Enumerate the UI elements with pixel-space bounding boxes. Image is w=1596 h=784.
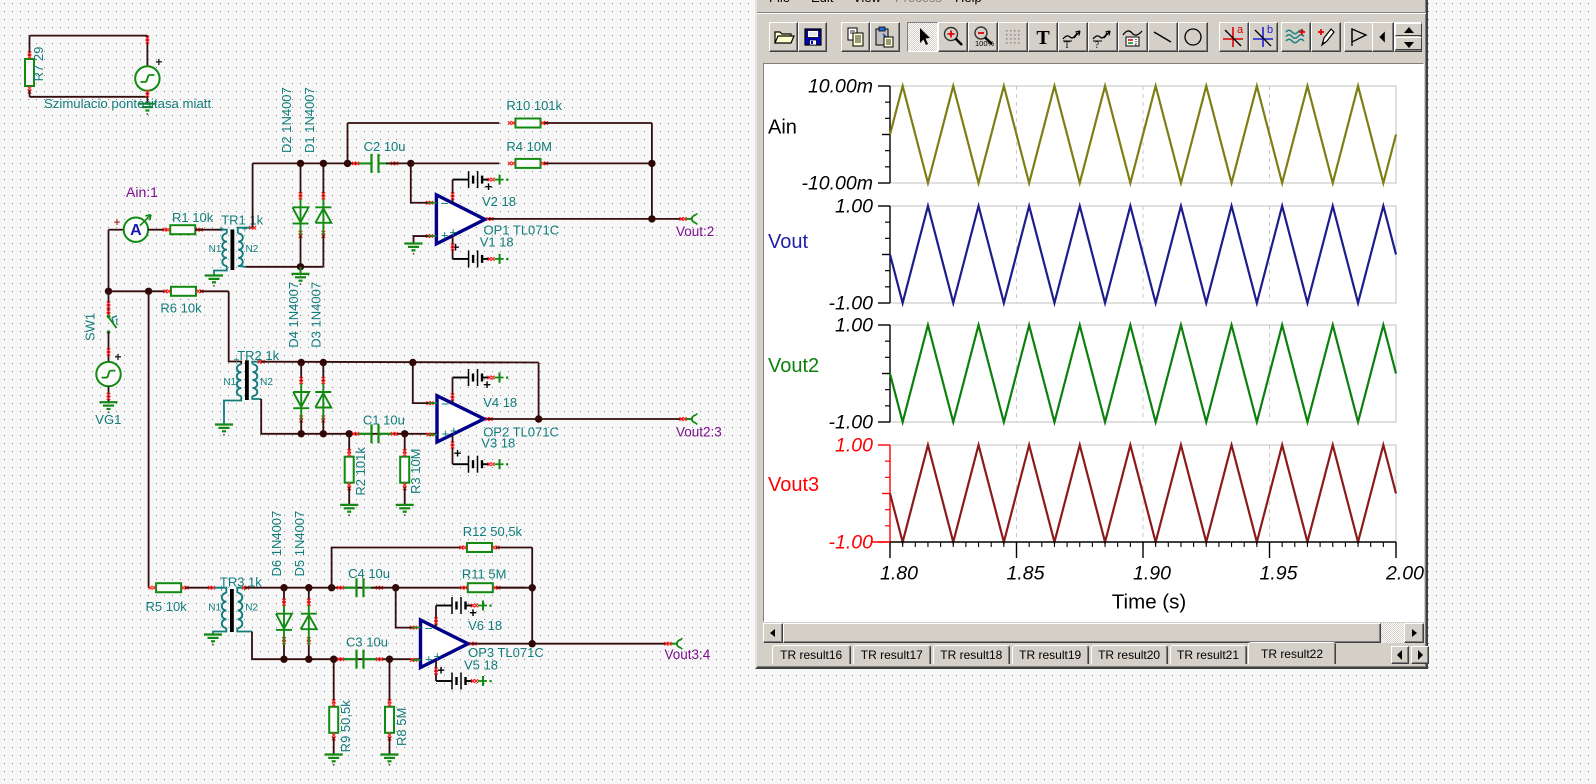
- svg-text:C3 10u: C3 10u: [346, 635, 388, 650]
- svg-text:D1 1N4007: D1 1N4007: [302, 87, 317, 153]
- svg-text:R6 10k: R6 10k: [160, 301, 202, 316]
- svg-text:b: b: [1267, 25, 1273, 36]
- svg-text:+: +: [450, 423, 458, 438]
- svg-text:-1.00: -1.00: [829, 293, 874, 315]
- svg-text:+: +: [483, 377, 491, 392]
- svg-text:Vout: Vout: [768, 231, 808, 253]
- svg-text:TR1 1k: TR1 1k: [221, 213, 263, 228]
- svg-text:D5 1N4007: D5 1N4007: [292, 511, 307, 577]
- svg-text:R7 29: R7 29: [31, 47, 46, 82]
- svg-text:Vout3:4: Vout3:4: [665, 647, 711, 662]
- svg-text:Time (s): Time (s): [1112, 591, 1186, 614]
- svg-text:-1.00: -1.00: [829, 532, 874, 554]
- svg-text:D3 1N4007: D3 1N4007: [308, 282, 323, 348]
- svg-text:N1: N1: [208, 603, 221, 614]
- svg-text:Vout2: Vout2: [768, 355, 819, 377]
- svg-text:N2: N2: [260, 377, 273, 388]
- svg-text:a: a: [1237, 25, 1244, 36]
- svg-text:V6 18: V6 18: [468, 618, 502, 633]
- svg-text:R2 101k: R2 101k: [353, 447, 368, 496]
- svg-text:V3 18: V3 18: [481, 436, 515, 451]
- svg-text:N1: N1: [209, 244, 222, 255]
- svg-text:1.95: 1.95: [1260, 563, 1298, 585]
- svg-text:1.00: 1.00: [835, 435, 873, 457]
- svg-text:R12 50,5k: R12 50,5k: [463, 524, 523, 539]
- svg-text:Vout:2: Vout:2: [676, 224, 714, 239]
- svg-text:Vout2:3: Vout2:3: [676, 425, 722, 440]
- svg-text:1.80: 1.80: [880, 563, 918, 585]
- svg-text:R10 101k: R10 101k: [506, 98, 562, 113]
- svg-text:R5 10k: R5 10k: [146, 599, 188, 614]
- svg-text:T: T: [1036, 27, 1050, 49]
- svg-text:+: +: [425, 651, 433, 666]
- svg-text:T: T: [1064, 40, 1070, 49]
- svg-text:Ain: Ain: [768, 117, 797, 139]
- svg-text:10.00m: 10.00m: [808, 76, 873, 98]
- svg-text:+: +: [441, 228, 449, 243]
- svg-text:D4 1N4007: D4 1N4007: [286, 282, 301, 348]
- svg-text:+: +: [114, 217, 120, 229]
- svg-text:+: +: [485, 179, 493, 194]
- svg-text:N1: N1: [223, 377, 236, 388]
- svg-text:1.00: 1.00: [835, 196, 873, 218]
- svg-text:+: +: [454, 446, 462, 461]
- svg-text:N2: N2: [245, 603, 258, 614]
- svg-text:V1 18: V1 18: [480, 235, 514, 250]
- svg-text:Ain:1: Ain:1: [126, 184, 158, 200]
- svg-text:?: ?: [1095, 40, 1099, 49]
- svg-text:100%: 100%: [975, 39, 995, 48]
- svg-text:D2 1N4007: D2 1N4007: [279, 87, 294, 153]
- svg-text:+: +: [114, 350, 121, 364]
- svg-text:+: +: [442, 426, 450, 441]
- svg-text:+: +: [437, 663, 445, 678]
- svg-text:C1 10u: C1 10u: [363, 413, 405, 428]
- svg-text:V2 18: V2 18: [482, 194, 516, 209]
- svg-text:-10.00m: -10.00m: [801, 173, 873, 195]
- svg-text:N2: N2: [246, 244, 259, 255]
- svg-text:t: t: [116, 316, 119, 328]
- svg-text:SW1: SW1: [82, 313, 97, 341]
- svg-text:C2 10u: C2 10u: [364, 139, 406, 154]
- svg-text:1.00: 1.00: [835, 315, 873, 337]
- svg-text:1.85: 1.85: [1007, 563, 1045, 585]
- svg-text:R1 10k: R1 10k: [172, 210, 214, 225]
- svg-text:VG1: VG1: [95, 412, 121, 427]
- svg-text:Vout3: Vout3: [768, 474, 819, 496]
- svg-text:−: −: [440, 195, 448, 211]
- svg-text:-1.00: -1.00: [829, 412, 874, 434]
- svg-text:V5 18: V5 18: [464, 658, 498, 673]
- svg-text:R9 50,5k: R9 50,5k: [338, 700, 353, 753]
- svg-text:+: +: [155, 55, 162, 69]
- svg-text:2.00: 2.00: [1385, 563, 1424, 585]
- svg-text:R4 10M: R4 10M: [506, 139, 552, 154]
- svg-text:C4 10u: C4 10u: [348, 566, 390, 581]
- svg-text:R11 5M: R11 5M: [462, 567, 507, 582]
- svg-text:V4 18: V4 18: [483, 395, 517, 410]
- svg-text:R3 10M: R3 10M: [408, 448, 423, 494]
- svg-text:Szimulacio pontositasa miatt: Szimulacio pontositasa miatt: [44, 96, 211, 111]
- svg-text:+: +: [434, 648, 442, 663]
- svg-text:D6 1N4007: D6 1N4007: [269, 511, 284, 577]
- svg-text:−: −: [425, 620, 433, 636]
- svg-text:1.90: 1.90: [1133, 563, 1171, 585]
- svg-text:−: −: [441, 396, 449, 412]
- svg-text:R8 5M: R8 5M: [394, 708, 409, 746]
